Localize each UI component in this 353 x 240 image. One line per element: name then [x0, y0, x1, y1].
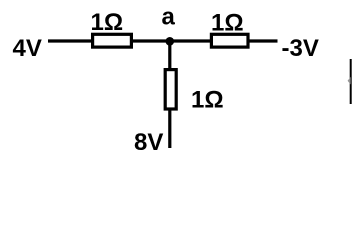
- clipped scrollbar line at right edge: [350, 59, 352, 104]
- svg-text:4V: 4V: [13, 35, 42, 62]
- wire from node a down to resistor R3: [168, 41, 171, 70]
- svg-text:a: a: [162, 4, 176, 31]
- resistor R1 body: [93, 34, 132, 47]
- svg-text:1Ω: 1Ω: [191, 87, 224, 114]
- svg-text:-3V: -3V: [282, 35, 319, 62]
- node a junction dot: [166, 37, 175, 46]
- wire from R2 to -3V: [248, 39, 278, 42]
- svg-text:1Ω: 1Ω: [211, 10, 244, 37]
- wire from 4V to resistor R1: [48, 39, 93, 42]
- svg-text:1Ω: 1Ω: [91, 9, 124, 36]
- wire from R3 down to 8V: [168, 109, 171, 148]
- svg-text:8V: 8V: [134, 129, 163, 156]
- resistor R3 body (vertical): [165, 70, 176, 109]
- wire from R1 to node a and on to R2: [132, 39, 211, 42]
- resistor R2 body: [211, 34, 248, 47]
- clipped scrollbar handle arrow: [348, 77, 351, 85]
